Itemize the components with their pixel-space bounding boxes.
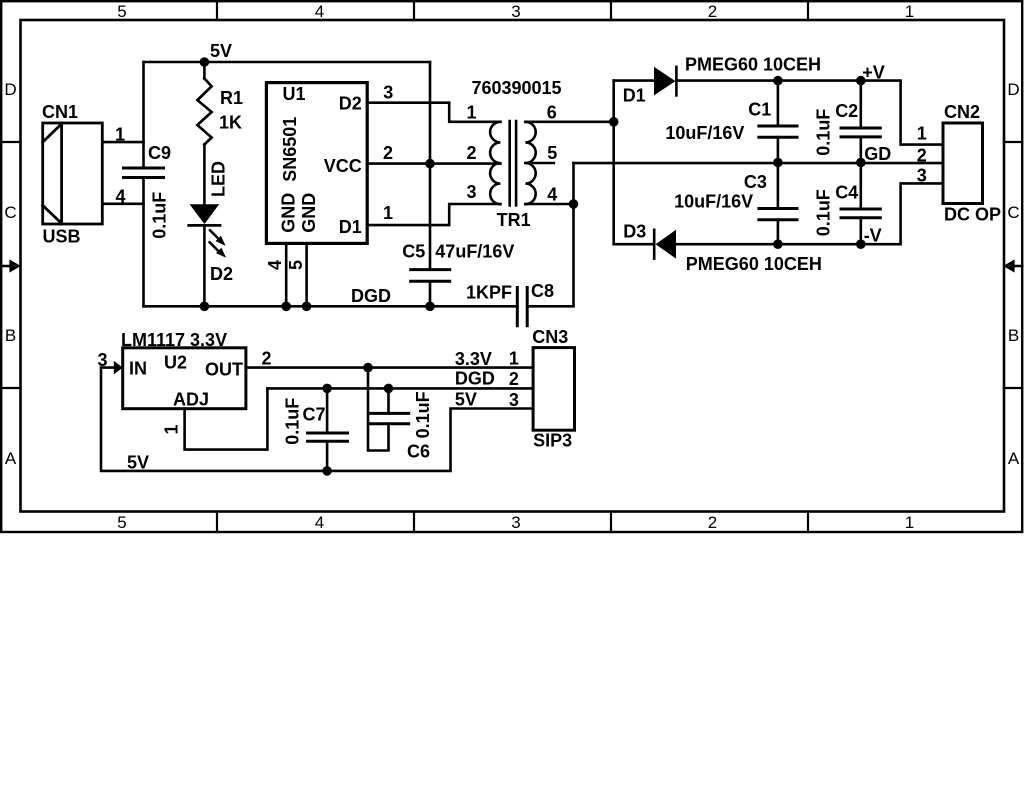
svg-text:ADJ: ADJ [173,390,209,410]
svg-text:B: B [5,326,16,345]
svg-text:3: 3 [97,350,107,370]
svg-text:2: 2 [466,143,476,163]
wire U2 pin3 IN / 5V loop [97,350,533,473]
svg-text:1: 1 [917,124,927,144]
svg-text:PMEG60 10CEH: PMEG60 10CEH [685,55,821,75]
node GD junction C2 [856,144,891,167]
node C1 top junction [773,76,783,86]
svg-text:D1: D1 [623,86,646,106]
wire 5V rail top [144,61,431,64]
svg-text:+V: +V [862,63,885,83]
svg-text:C6: C6 [407,442,430,462]
svg-text:5V: 5V [210,41,232,61]
svg-text:DC OP: DC OP [944,205,1001,225]
svg-text:PMEG60 10CEH: PMEG60 10CEH [686,254,822,274]
svg-text:U2: U2 [164,353,187,373]
svg-text:D1: D1 [339,217,362,237]
svg-text:0.1uF: 0.1uF [413,391,433,438]
wire U1 GND pin4 stub [265,243,286,306]
wire 5V to VCC/C5 vertical [429,62,432,306]
wire DGD rail [144,286,517,306]
svg-text:4: 4 [265,260,285,270]
svg-text:D2: D2 [339,94,362,114]
wire GD net vertical to C8 [528,163,573,306]
svg-text:LM1117 3.3V: LM1117 3.3V [121,330,227,350]
svg-text:10uF/16V: 10uF/16V [665,123,744,143]
wire U1 pin3 D2 to TR1 pin1 [367,83,500,122]
svg-text:5V: 5V [455,390,477,410]
svg-text:5: 5 [547,143,557,163]
wire CN1 pin 1 [102,125,143,145]
svg-text:2: 2 [708,2,717,21]
svg-text:R1: R1 [220,88,243,108]
wire U1 pin2 VCC to TR1 pin2 [367,143,500,164]
connector CN1 [42,102,102,247]
svg-text:DGD: DGD [351,286,391,306]
svg-text:3.3V: 3.3V [455,349,492,369]
capacitor C9 0.1uF [124,143,172,239]
wire DGD rail bottom [267,387,533,390]
node VCC junction [425,159,435,169]
svg-text:-V: -V [864,225,882,245]
svg-text:1K: 1K [219,113,242,133]
IC U1 SN6501 [266,83,367,244]
svg-text:C8: C8 [531,281,554,301]
svg-text:D2: D2 [210,264,233,284]
svg-text:GD: GD [864,144,891,164]
svg-text:CN2: CN2 [944,102,980,122]
wire +V rail [614,79,654,82]
node TR1 pin6 junction [609,117,619,127]
diode D3 PMEG60 10CEH [623,222,822,274]
capacitor C6 0.1uF [368,368,433,462]
node C7 bottom junction [322,466,332,476]
svg-text:1: 1 [509,348,519,368]
svg-text:C2: C2 [835,101,858,121]
svg-text:IN: IN [129,359,147,379]
svg-text:GND: GND [299,193,319,233]
svg-text:GND: GND [279,193,299,233]
node 3.3V/C6 junction [363,363,373,373]
svg-text:U1: U1 [283,84,306,104]
svg-text:A: A [1008,449,1020,468]
wire TR1 pin5 stub [525,162,553,165]
connector CN2 DC OP [917,102,1001,225]
node U1 GND junctions [281,302,311,312]
svg-text:2: 2 [917,145,927,165]
wire U2 pin2 OUT 3.3V rail [246,349,533,369]
svg-text:USB: USB [43,227,81,247]
svg-text:5V: 5V [127,453,149,473]
node C4 bottom junction [856,239,866,249]
svg-text:LED: LED [208,161,228,197]
wire left vertical to C9 [142,62,145,306]
svg-text:760390015: 760390015 [471,78,561,98]
svg-text:SIP3: SIP3 [533,431,572,451]
svg-text:A: A [5,449,17,468]
svg-text:1KPF: 1KPF [466,283,512,303]
svg-text:C4: C4 [835,183,858,203]
svg-text:3: 3 [509,390,519,410]
wire U2 pin1 ADJ loop [161,388,267,449]
svg-text:SN6501: SN6501 [280,117,300,182]
svg-text:D: D [1007,80,1019,99]
wire +V rail right [676,81,943,145]
resistor R1 1K [197,62,243,204]
svg-text:2: 2 [383,143,393,163]
svg-text:VCC: VCC [324,156,362,176]
diode D1 PMEG60 10CEH [623,55,821,106]
wire -V rail [614,243,654,246]
svg-text:D3: D3 [623,222,646,242]
svg-text:CN3: CN3 [532,327,568,347]
svg-text:C9: C9 [148,143,171,163]
svg-text:4: 4 [115,187,125,207]
wire TR1 pin6 [525,121,613,124]
node C5/DGD junction [425,302,435,312]
svg-text:1: 1 [905,513,914,532]
transformer TR1 760390015 [466,78,561,230]
svg-text:3: 3 [383,83,393,103]
node DGD/C7 junction [322,384,332,394]
wire LED to DGD rail [203,226,206,306]
svg-text:4: 4 [315,2,324,21]
svg-text:DGD: DGD [455,369,495,389]
svg-text:B: B [1008,326,1019,345]
svg-text:0.1uF: 0.1uF [814,189,834,236]
svg-text:OUT: OUT [205,360,243,380]
svg-text:1: 1 [115,125,125,145]
connector CN3 SIP3 [509,327,575,451]
svg-text:2: 2 [261,349,271,369]
wire -V rail right [676,183,943,244]
wire U1 pin1 D1 to TR1 pin3 [367,203,500,225]
svg-text:0.1uF: 0.1uF [283,398,303,445]
svg-text:3: 3 [466,182,476,202]
svg-text:C: C [4,203,16,222]
svg-text:5: 5 [117,513,126,532]
svg-text:0.1uF: 0.1uF [150,192,170,239]
node 5V [200,41,232,67]
node DGD/C6 junction [384,384,394,394]
svg-text:C7: C7 [303,405,326,425]
wire GD rail [574,162,944,165]
svg-text:3: 3 [917,166,927,186]
svg-text:5: 5 [286,260,306,270]
svg-text:3: 3 [511,513,520,532]
svg-text:47uF/16V: 47uF/16V [435,242,514,262]
regulator U2 LM1117 3.3V [114,330,246,410]
node TR1 pin4 junction [569,199,579,209]
svg-text:1: 1 [466,103,476,123]
svg-text:6: 6 [547,102,557,122]
svg-text:C5: C5 [402,242,425,262]
wire TR1 pin4 [525,203,573,206]
svg-text:3: 3 [511,2,520,21]
node LED/DGD junction [200,302,210,312]
svg-text:C1: C1 [748,100,771,120]
svg-text:CN1: CN1 [42,102,78,122]
svg-text:1: 1 [161,424,181,434]
svg-text:2: 2 [509,369,519,389]
capacitor C7 0.1uF [283,388,348,471]
svg-text:D: D [4,80,16,99]
capacitor C2 0.1uF [814,81,881,163]
node C3 bottom junction [773,239,783,249]
capacitor C1 10uF/16V [665,81,797,163]
capacitor C3 10uF/16V [674,163,797,245]
capacitor C5 47uF/16V [402,242,514,282]
svg-text:1: 1 [905,2,914,21]
svg-text:TR1: TR1 [497,210,531,230]
svg-text:10uF/16V: 10uF/16V [674,192,753,212]
svg-text:C3: C3 [744,172,767,192]
svg-text:2: 2 [708,513,717,532]
svg-text:5: 5 [117,2,126,21]
wire U1 GND pin5 stub [286,243,307,306]
capacitor C4 0.1uF [814,163,881,245]
svg-text:0.1uF: 0.1uF [814,109,834,156]
node GD junction C1 [773,158,783,168]
svg-text:1: 1 [383,203,393,223]
node C2 top junction [856,76,866,86]
svg-text:C: C [1007,203,1019,222]
capacitor C8 1KPF [466,281,554,326]
wire D-column vertical [612,81,615,245]
wire CN1 pin 4 [102,187,143,207]
svg-text:4: 4 [547,184,557,204]
LED D2 [189,161,233,284]
svg-text:4: 4 [315,513,324,532]
